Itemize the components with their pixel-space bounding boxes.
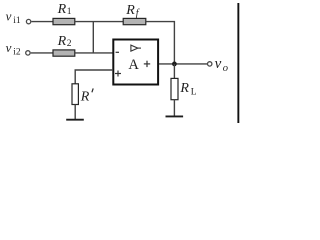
- svg-text:R: R: [125, 3, 135, 18]
- wire RL to ground: [173, 100, 175, 116]
- wire output node down to RL: [173, 64, 175, 79]
- junction dot output node: [172, 62, 177, 67]
- figure border (right edge): [237, 3, 239, 123]
- svg-text:1: 1: [67, 7, 72, 17]
- wire R' to ground: [74, 105, 76, 120]
- svg-text:2: 2: [67, 39, 72, 49]
- wire vi1 to R1: [31, 21, 53, 23]
- label vi2: [6, 40, 21, 58]
- op-amp A box: [113, 40, 158, 85]
- svg-text:A: A: [128, 57, 139, 73]
- svg-text:R: R: [57, 34, 67, 49]
- resistor R2: [53, 50, 75, 56]
- ground (R'): [66, 119, 84, 121]
- svg-text:o: o: [223, 63, 228, 74]
- svg-text:R: R: [80, 89, 90, 104]
- svg-text:i2: i2: [13, 48, 21, 58]
- label Rf: [125, 3, 140, 19]
- resistor Rf: [123, 18, 146, 24]
- node vi2 terminal: [26, 51, 30, 55]
- label R': [80, 88, 93, 104]
- resistor R1: [53, 18, 75, 24]
- node vi1 terminal: [26, 19, 30, 23]
- label R1: [57, 2, 72, 17]
- wire Rf to output node: [146, 22, 175, 62]
- svg-text:i1: i1: [13, 16, 21, 26]
- svg-text:L: L: [191, 87, 197, 97]
- svg-text:v: v: [6, 9, 12, 24]
- label R2: [57, 34, 72, 49]
- svg-text:v: v: [6, 40, 12, 55]
- op-amp minus sign: [116, 51, 119, 53]
- svg-text:v: v: [215, 56, 222, 72]
- node vo terminal: [208, 62, 212, 66]
- wire junction vertical (row1 to row2): [92, 22, 94, 53]
- resistor RL: [171, 78, 178, 99]
- wire noninverting input: [75, 70, 113, 84]
- resistor R': [72, 84, 78, 105]
- wire R2 to op-amp inverting input: [75, 52, 113, 54]
- wire vi2 to R2: [31, 52, 54, 54]
- ground (RL): [166, 115, 184, 117]
- label RL: [179, 81, 196, 97]
- wire R1 to Rf (inverting node, row 1): [75, 21, 124, 23]
- svg-text:R: R: [179, 81, 189, 96]
- label vo: [215, 56, 228, 74]
- svg-text:R: R: [57, 2, 67, 17]
- wire op-amp output to vo: [159, 63, 207, 65]
- op-amp triangle symbol: [131, 45, 141, 51]
- op-amp plus sign (noninverting input): [115, 71, 121, 77]
- op-amp plus sign (output polarity): [144, 61, 150, 67]
- label vi1: [6, 9, 21, 27]
